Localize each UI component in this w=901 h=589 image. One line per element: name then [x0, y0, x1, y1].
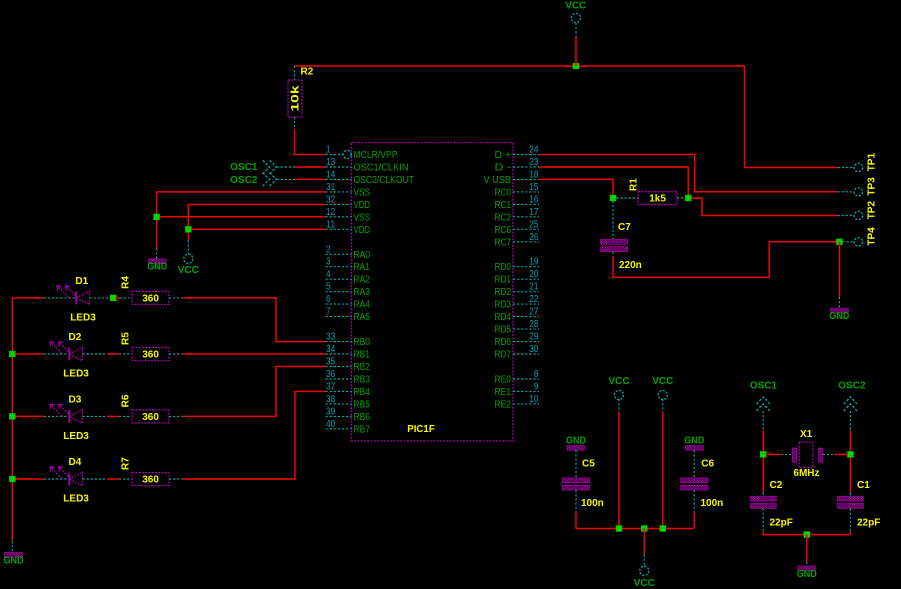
net label OSC1 bottom [750, 380, 778, 411]
pin 21 RD2 [495, 282, 540, 299]
svg-text:100n: 100n [701, 498, 724, 509]
pin 13 OSC1/CLKIN [326, 157, 409, 174]
svg-text:R6: R6 [120, 394, 131, 407]
pin stub D4 anode [83, 478, 108, 480]
svg-text:V USB: V USB [484, 175, 512, 186]
wire VDD pin 11 [188, 228, 325, 230]
LED D3 LED3 [50, 395, 89, 442]
test point TP2 [854, 201, 877, 220]
svg-text:TP4: TP4 [867, 227, 878, 246]
pin 23 D - [495, 157, 540, 174]
svg-text:C1: C1 [857, 480, 870, 491]
wire stub OSC1 bottom [762, 411, 764, 430]
VCC supply bottom mid [640, 566, 649, 575]
pin 5 RA3 [326, 282, 371, 299]
pin stub R1 right [677, 197, 685, 199]
junction rail D2 [9, 351, 15, 357]
pin 17 RC2 [495, 207, 540, 224]
pin 6 RA4 [326, 294, 371, 311]
svg-text:360: 360 [142, 412, 159, 423]
svg-text:RA5: RA5 [354, 312, 371, 323]
svg-text:360: 360 [142, 475, 159, 486]
wire R1 to TP2 [692, 198, 838, 216]
pin 1 MCLR/VPP [326, 145, 398, 162]
wire rail to D3 [12, 415, 44, 417]
svg-text:GND: GND [684, 435, 704, 446]
wire stub TP4 [843, 241, 854, 243]
svg-text:21: 21 [529, 282, 539, 293]
svg-text:RE1: RE1 [495, 387, 512, 398]
pin 7 RA5 [326, 307, 371, 324]
svg-text:6MHz: 6MHz [793, 468, 819, 479]
svg-text:RB7: RB7 [354, 424, 371, 435]
svg-text:23: 23 [529, 157, 539, 168]
svg-text:37: 37 [326, 381, 336, 392]
svg-text:5: 5 [326, 282, 331, 293]
svg-text:VCC: VCC [608, 376, 629, 387]
svg-text:LED3: LED3 [63, 494, 89, 505]
svg-text:27: 27 [529, 307, 539, 318]
pin stub C6 top [693, 450, 695, 478]
wire rail to VCC symbol [643, 529, 645, 555]
junction R1 right [685, 195, 691, 201]
net label OSC2 [230, 173, 276, 186]
wire VCC2 down [662, 412, 664, 529]
pin stub R5 left [119, 353, 132, 355]
pin 10 RE2 [495, 394, 540, 411]
svg-text:15: 15 [529, 182, 539, 193]
resistor R6 360 [132, 410, 169, 423]
wire D+ to TP3 [539, 155, 838, 192]
svg-text:C6: C6 [701, 459, 714, 470]
wire stub TP1 [838, 167, 854, 169]
VCC supply bottom 1 [614, 390, 623, 399]
wire stub VCC top [575, 23, 577, 36]
junction D1 anode [110, 295, 116, 301]
svg-text:25: 25 [529, 219, 539, 230]
pin 20 RD1 [495, 269, 540, 286]
svg-text:32: 32 [326, 194, 336, 205]
ground C6 [685, 446, 703, 451]
pin stub R5 right [169, 353, 183, 355]
svg-text:RE0: RE0 [495, 375, 512, 386]
svg-text:10k: 10k [290, 84, 302, 111]
svg-text:6: 6 [326, 294, 331, 305]
wire rail to D4 [12, 478, 44, 480]
pin stub D2 anode [83, 353, 108, 355]
pin stub R4 left [120, 297, 133, 299]
test point TP1 [854, 153, 877, 172]
pin 16 RC1 [495, 194, 540, 211]
svg-text:14: 14 [326, 169, 336, 180]
svg-text:D -: D - [495, 163, 512, 174]
pin 2 RA0 [326, 244, 371, 260]
pin stub C2 bottom [762, 508, 764, 531]
wire R2 to MCLR pin 1 [295, 130, 326, 155]
svg-text:RE2: RE2 [495, 399, 512, 410]
svg-text:31: 31 [326, 182, 336, 193]
svg-text:RA2: RA2 [354, 275, 371, 286]
pin stub C2 top [762, 493, 764, 496]
svg-text:RC2: RC2 [495, 212, 512, 223]
wire stub OSC2 bottom [849, 411, 851, 430]
IC U1 PIC1F microcontroller [352, 143, 514, 442]
svg-text:26: 26 [529, 232, 539, 243]
pin 15 RC0 [495, 182, 540, 199]
pin stub R2 top [294, 66, 296, 80]
svg-text:D2: D2 [69, 332, 82, 343]
wire LED ground rail [11, 298, 13, 541]
svg-text:36: 36 [326, 369, 336, 380]
svg-text:RA4: RA4 [354, 300, 371, 311]
LED D1 LED3 [57, 276, 96, 323]
wire stub VCC bottom mid [643, 555, 645, 567]
svg-text:34: 34 [326, 344, 336, 355]
svg-text:GND: GND [829, 311, 849, 322]
svg-text:RD2: RD2 [495, 287, 512, 298]
ground crystal [798, 566, 816, 571]
pin 24 D + [495, 145, 540, 162]
svg-text:360: 360 [142, 350, 159, 361]
svg-text:16: 16 [529, 194, 539, 205]
svg-text:22pF: 22pF [770, 518, 793, 529]
pin 33 RB0 [326, 332, 371, 349]
svg-text:R4: R4 [120, 276, 131, 289]
VCC supply top [571, 13, 580, 22]
svg-text:RB2: RB2 [354, 362, 371, 373]
capacitor C6 100n [681, 478, 709, 483]
junction rail D3 [9, 413, 15, 419]
pin 12 VSS [326, 207, 371, 224]
svg-text:RC0: RC0 [495, 187, 512, 198]
pin stub C7 top [612, 201, 614, 239]
wire VDD pin 32 to VCC [188, 204, 325, 240]
pin 8 RE0 [495, 369, 540, 386]
pin stub R6 right [169, 415, 183, 417]
test point TP4 [854, 227, 877, 246]
pin 26 RC7 [495, 232, 540, 249]
svg-text:7: 7 [326, 307, 331, 318]
svg-text:VCC: VCC [634, 578, 655, 589]
svg-text:RC1: RC1 [495, 200, 512, 211]
svg-text:10: 10 [529, 394, 539, 405]
svg-text:40: 40 [326, 419, 336, 430]
svg-text:220n: 220n [619, 260, 642, 271]
svg-text:OSC1/CLKIN: OSC1/CLKIN [354, 163, 409, 174]
wire bottom VCC rail [576, 512, 694, 529]
resistor R1 1k5 [638, 192, 677, 205]
svg-text:RA0: RA0 [354, 250, 371, 261]
svg-text:D1: D1 [75, 276, 88, 287]
ground right [830, 308, 848, 313]
svg-text:RD6: RD6 [495, 337, 512, 348]
wire VSS pin 12 [157, 216, 326, 218]
svg-text:RD1: RD1 [495, 275, 512, 286]
svg-text:22pF: 22pF [857, 518, 880, 529]
capacitor C7 220n [600, 239, 628, 244]
svg-text:22: 22 [529, 294, 539, 305]
wire D1 to R4 [116, 297, 120, 299]
pin stub R1 left [616, 197, 638, 199]
wire R6 to RB2 [183, 367, 326, 417]
svg-text:18: 18 [529, 169, 539, 180]
svg-text:D3: D3 [69, 395, 82, 406]
pin 3 RA1 [326, 257, 371, 274]
svg-text:C7: C7 [618, 222, 631, 233]
wire VCC top stub [575, 36, 577, 66]
svg-text:35: 35 [326, 357, 336, 368]
pin 34 RB1 [326, 344, 371, 361]
svg-text:LED3: LED3 [63, 431, 89, 442]
svg-text:D +: D + [495, 150, 512, 161]
resistor R4 360 [132, 291, 169, 304]
svg-text:VDD: VDD [354, 200, 371, 211]
net label OSC1 [230, 160, 276, 173]
resistor R7 360 [132, 473, 169, 486]
svg-text:GND: GND [147, 262, 167, 273]
pin 14 OSC2/CLKOUT [326, 169, 415, 186]
svg-text:38: 38 [326, 394, 336, 405]
resistor R2 10k [288, 67, 314, 118]
wire stub OSC2 label [277, 178, 295, 180]
junction GND net [153, 214, 159, 220]
svg-text:RB5: RB5 [354, 399, 371, 410]
pin stub C1 bottom [849, 508, 851, 531]
svg-text:RB0: RB0 [354, 337, 371, 348]
svg-text:C5: C5 [582, 459, 595, 470]
svg-text:OSC2: OSC2 [230, 175, 258, 186]
pin stub C5 bottom [575, 490, 577, 511]
svg-text:28: 28 [529, 319, 539, 330]
pin 25 RC6 [495, 219, 540, 236]
pin 38 RB5 [326, 394, 371, 411]
svg-text:3: 3 [326, 257, 331, 268]
pin stub C1 top [849, 493, 851, 496]
svg-text:2: 2 [326, 244, 331, 255]
svg-text:4: 4 [326, 269, 331, 280]
junction VCC rail [573, 63, 579, 69]
wire stub VCC bottom 2 [662, 399, 664, 412]
svg-text:RD5: RD5 [495, 325, 512, 336]
svg-text:C2: C2 [770, 480, 783, 491]
pin stub R6 left [119, 415, 132, 417]
svg-text:11: 11 [326, 219, 336, 230]
svg-text:VCC: VCC [178, 265, 199, 276]
net label OSC2 bottom [838, 380, 866, 411]
svg-text:24: 24 [529, 145, 539, 156]
pin 4 RA2 [326, 269, 371, 286]
VCC supply left [184, 254, 193, 263]
wire D4 to R7 [107, 478, 119, 480]
wire VCC1 down [618, 412, 620, 529]
pin 39 RB6 [326, 406, 371, 423]
wire stub GND left [156, 248, 158, 258]
pin stub D1 anode [89, 297, 114, 299]
pin stub D2 cathode [44, 353, 68, 355]
svg-text:R7: R7 [120, 457, 131, 470]
pin 29 RD6 [495, 332, 540, 349]
pin 32 VDD [326, 194, 371, 211]
svg-text:TP1: TP1 [867, 153, 878, 172]
wire stub OSC1 label [277, 166, 295, 168]
capacitor C5 100n [562, 478, 590, 483]
LED D4 LED3 [50, 457, 89, 504]
svg-text:17: 17 [529, 207, 539, 218]
pin 19 RD0 [495, 257, 540, 274]
svg-text:LED3: LED3 [63, 369, 89, 380]
wire stub VCC left [187, 240, 189, 254]
pin 31 VSS [326, 182, 371, 199]
svg-text:VSS: VSS [354, 187, 371, 198]
svg-text:20: 20 [529, 269, 539, 280]
junction X1 left [760, 451, 766, 457]
svg-text:29: 29 [529, 332, 539, 343]
pin stub C5 top [575, 450, 577, 478]
ground C5 [567, 446, 585, 451]
junction VCC net left [185, 226, 191, 232]
svg-text:RD7: RD7 [495, 350, 512, 361]
junction rail VCC1 [616, 525, 622, 531]
wire stub GND bottom left [11, 541, 13, 552]
pin 22 RD3 [495, 294, 540, 311]
svg-text:8: 8 [534, 369, 539, 380]
svg-text:R5: R5 [120, 332, 131, 345]
capacitor C1 22pF [837, 496, 863, 501]
wire VSS pin 31 to GND [157, 192, 326, 250]
svg-text:GND: GND [4, 555, 24, 566]
resistor R5 360 [132, 348, 169, 361]
wire X1 left [766, 453, 781, 455]
svg-text:12: 12 [326, 207, 336, 218]
svg-text:100n: 100n [581, 498, 604, 509]
svg-text:TP3: TP3 [867, 177, 878, 196]
svg-text:PIC1F: PIC1F [407, 424, 435, 435]
wire stub TP2 [838, 215, 854, 217]
wire V USB to R1 [539, 179, 613, 194]
svg-text:RD0: RD0 [495, 262, 512, 273]
pin stub X1 right [823, 453, 834, 455]
wire C7 to TP4 [613, 242, 836, 278]
pin 18 V USB [484, 169, 540, 186]
wire R7 to RB4 [183, 391, 326, 479]
wire crystal ground rail [763, 531, 850, 534]
pin 9 RE1 [495, 381, 540, 398]
ground bottom left [5, 552, 23, 557]
svg-text:RB3: RB3 [354, 375, 371, 386]
svg-text:RC7: RC7 [495, 237, 512, 248]
wire rail to D2 [12, 353, 44, 355]
wire crystal rail to GND [806, 535, 808, 562]
wire D3 to R6 [107, 415, 119, 417]
pin stub R2 bottom [294, 117, 296, 130]
pin 30 RD7 [495, 344, 540, 361]
svg-text:RA3: RA3 [354, 287, 371, 298]
wire OSC1 to X1/C2 [762, 430, 764, 493]
svg-text:1: 1 [326, 145, 331, 156]
junction rail VCC2 [660, 525, 666, 531]
pin stub R7 left [119, 478, 132, 480]
wire OSC2 to pin 14 [295, 178, 326, 180]
pin 36 RB3 [326, 369, 371, 386]
ground left [148, 259, 166, 264]
svg-text:VCC: VCC [652, 376, 673, 387]
wire TP4 to GND [838, 242, 840, 297]
wire VCC to TP1 [745, 66, 839, 168]
wire OSC1 to pin 13 [295, 166, 326, 168]
svg-text:1k5: 1k5 [649, 194, 666, 205]
svg-text:RB4: RB4 [354, 387, 371, 398]
svg-text:GND: GND [566, 435, 586, 446]
svg-text:RB1: RB1 [354, 350, 371, 361]
svg-text:30: 30 [529, 344, 539, 355]
pin 28 RD5 [495, 319, 540, 336]
svg-text:OSC1: OSC1 [750, 380, 778, 391]
svg-text:X1: X1 [800, 429, 813, 440]
pin stub C7 bottom [612, 252, 614, 257]
svg-text:360: 360 [142, 294, 159, 305]
svg-text:MCLR/VPP: MCLR/VPP [354, 150, 398, 161]
junction R1 left / C7 [610, 195, 616, 201]
svg-text:GND: GND [797, 569, 817, 580]
svg-text:13: 13 [326, 157, 336, 168]
svg-text:OSC1: OSC1 [230, 162, 258, 173]
wire X1 right [834, 453, 848, 455]
pin stub D1 cathode [44, 297, 75, 299]
wire C6 to rail [693, 512, 695, 529]
pin stub D3 cathode [44, 415, 68, 417]
wire stub GND right [838, 297, 840, 308]
LED D2 LED3 [50, 332, 89, 379]
pin stub R7 right [169, 478, 183, 480]
svg-text:R2: R2 [301, 67, 314, 78]
svg-text:VDD: VDD [354, 225, 371, 236]
svg-text:RC6: RC6 [495, 225, 512, 236]
svg-text:RD3: RD3 [495, 300, 512, 311]
svg-text:VCC: VCC [565, 1, 586, 12]
junction rail VCC mid [641, 525, 647, 531]
svg-text:TP2: TP2 [867, 201, 878, 220]
svg-text:RD4: RD4 [495, 312, 512, 323]
wire rail to D1 [12, 297, 44, 299]
junction rail D4 [9, 476, 15, 482]
test point TP3 [854, 177, 877, 196]
wire R4 to RB0 [183, 298, 326, 342]
pin 27 RD4 [495, 307, 540, 324]
svg-text:D4: D4 [69, 457, 82, 468]
svg-text:RB6: RB6 [354, 412, 371, 423]
svg-text:LED3: LED3 [70, 313, 96, 324]
pin 37 RB4 [326, 381, 371, 398]
pin stub X1 left [781, 453, 792, 455]
pin stub C6 bottom [693, 490, 695, 511]
junction TP4 [836, 239, 842, 245]
wire R5 to RB1 [183, 353, 326, 355]
svg-text:OSC2/CLKOUT: OSC2/CLKOUT [354, 175, 415, 186]
svg-text:39: 39 [326, 406, 336, 417]
wire stub VCC bottom 1 [618, 399, 620, 412]
wire stub TP3 [838, 191, 854, 193]
pin 40 RB7 [326, 419, 371, 436]
pin stub D3 anode [83, 415, 108, 417]
VCC supply bottom 2 [658, 390, 667, 399]
svg-text:19: 19 [529, 257, 539, 268]
pin 11 VDD [326, 219, 371, 236]
wire D2 to R5 [107, 353, 119, 355]
pin stub D4 cathode [44, 478, 68, 480]
svg-text:33: 33 [326, 332, 336, 343]
wire VCC rail top [295, 65, 745, 67]
svg-text:RA1: RA1 [354, 262, 371, 273]
